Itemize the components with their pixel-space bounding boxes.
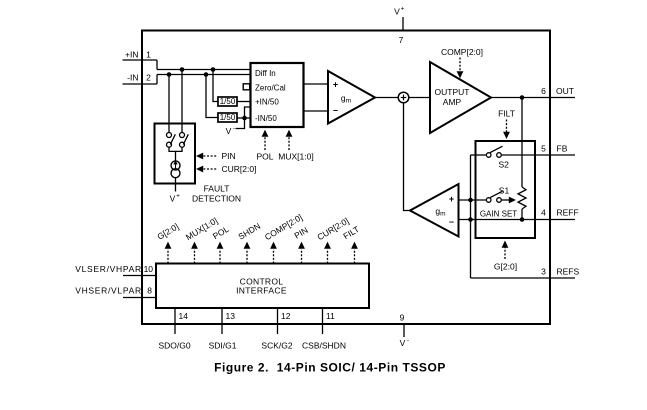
svg-text:2: 2: [146, 73, 151, 83]
wire +IN rail to fault detection: [181, 70, 183, 133]
control signal CUR[2:0] arrow: [196, 166, 217, 173]
wire resistor to REFF line: [521, 209, 523, 220]
svg-text:–: –: [449, 217, 454, 227]
wire REFS line pin 3: [471, 277, 576, 279]
svg-text:COMP[2:0]: COMP[2:0]: [441, 47, 483, 57]
svg-text:+: +: [401, 6, 405, 13]
svg-text:SDO/G0: SDO/G0: [158, 341, 190, 351]
svg-text:V: V: [394, 7, 400, 17]
control signal POL arrow: [262, 130, 269, 150]
control signal FILT arrow: [503, 120, 510, 140]
pin 9 V-: [403, 324, 405, 337]
S2 and pin 5 FB labels: [498, 144, 567, 170]
svg-text:-IN/50: -IN/50: [255, 114, 277, 123]
svg-text:V: V: [226, 126, 232, 136]
wire OUT down to gain resistor: [521, 98, 523, 188]
svg-text:PIN: PIN: [292, 225, 309, 241]
V+ label top: [394, 6, 404, 46]
node junction on OUT line: [520, 95, 525, 100]
FAULT DETECTION label: [192, 184, 241, 204]
svg-text:8: 8: [147, 285, 152, 295]
svg-text:Figure 2. 14-Pin SOIC/ 14-Pin: Figure 2. 14-Pin SOIC/ 14-Pin TSSOP: [214, 361, 446, 375]
node junction V- on -IN/50 line: [242, 116, 247, 121]
wire mux block to gm1 - input: [304, 110, 329, 112]
GAIN SET label: [480, 210, 517, 219]
svg-text:+IN/50: +IN/50: [255, 98, 279, 107]
svg-text:PIN: PIN: [222, 151, 236, 161]
attenuator block 1/50 upper: [218, 97, 237, 106]
S1 label: [499, 185, 510, 195]
switch S2: [471, 146, 503, 157]
wire -IN rail to fault detection: [168, 75, 170, 133]
svg-text:9: 9: [400, 313, 405, 323]
svg-text:12: 12: [281, 311, 291, 321]
pin 13 SDI/G1: [221, 308, 223, 334]
svg-text:+: +: [333, 80, 338, 90]
wire gm2 + input row: [459, 199, 487, 201]
pin 14 SDO/G0: [174, 308, 176, 334]
wire +IN rail to upper 1/50: [213, 70, 218, 102]
wire gm1 output to summing node: [375, 97, 398, 99]
svg-text:FILT: FILT: [498, 109, 515, 119]
svg-text:Zero/Cal: Zero/Cal: [255, 84, 286, 93]
svg-text:AMP: AMP: [443, 97, 462, 107]
svg-text:SCK/G2: SCK/G2: [261, 341, 292, 351]
outer device boundary box: [142, 31, 550, 325]
fault switch left: [167, 133, 176, 148]
svg-text:CUR[2:0]: CUR[2:0]: [222, 164, 257, 174]
resistor R gain: [518, 187, 526, 209]
pin 11 CSB/SHDN: [322, 308, 324, 334]
svg-text:CSB/SHDN: CSB/SHDN: [302, 341, 346, 351]
svg-text:-: -: [233, 125, 235, 132]
svg-text:-: -: [407, 337, 409, 344]
svg-text:4: 4: [541, 208, 546, 218]
svg-text:SDI/G1: SDI/G1: [209, 341, 237, 351]
svg-text:SHDN: SHDN: [236, 221, 262, 242]
attenuator block 1/50 lower: [218, 113, 237, 122]
svg-text:FAULT: FAULT: [204, 184, 230, 194]
svg-text:6: 6: [541, 86, 546, 96]
pin 2 -IN: [123, 75, 158, 85]
pin 12 SCK/G2: [277, 308, 279, 334]
svg-text:FB: FB: [557, 144, 568, 154]
current source I1: [171, 160, 180, 177]
svg-text:V: V: [170, 194, 176, 204]
svg-text:10: 10: [144, 264, 154, 274]
svg-text:+IN: +IN: [125, 50, 138, 60]
pin 7 V+ supply: [402, 17, 404, 31]
svg-text:1/50: 1/50: [220, 97, 236, 106]
svg-text:S1: S1: [499, 185, 510, 195]
control signal COMP[2:0] arrow: [457, 58, 464, 79]
pin 4 REFF labels: [541, 208, 579, 218]
wire REFF line pin 4: [459, 219, 576, 221]
transconductance amp gm1: [328, 71, 375, 124]
wire upper rail from +IN: [157, 69, 251, 71]
svg-text:V: V: [400, 338, 406, 348]
svg-text:14: 14: [179, 311, 189, 321]
transconductance amp gm2 feedback: [410, 184, 459, 237]
svg-text:+: +: [449, 194, 454, 204]
pin 1 labels: [125, 50, 151, 60]
svg-text:GAIN SET: GAIN SET: [480, 210, 517, 219]
control signal G[2:0] arrow: [502, 241, 509, 260]
summing node circle: [398, 92, 409, 103]
pin 10 VLSER/VHPAR: [123, 275, 156, 277]
svg-text:OUTPUT: OUTPUT: [435, 87, 470, 97]
slanted control signal labels: [155, 212, 361, 242]
svg-text:+: +: [176, 193, 180, 200]
svg-text:DETECTION: DETECTION: [192, 194, 241, 204]
fault detection block: [155, 124, 196, 184]
wire current source to V+: [175, 178, 177, 192]
wire switches to current source: [169, 147, 182, 161]
svg-text:G[2:0]: G[2:0]: [155, 221, 180, 241]
output amplifier U2: [430, 62, 491, 133]
svg-text:INTERFACE: INTERFACE: [236, 285, 287, 295]
wire lower 1/50 to mux block: [237, 117, 251, 119]
control signal PIN arrow: [196, 153, 217, 160]
control interface block: [156, 264, 369, 309]
wire S1 arrow to resistor: [501, 197, 516, 204]
svg-text:S2: S2: [498, 160, 509, 170]
svg-text:G[2:0]: G[2:0]: [494, 261, 517, 271]
pin 3 REFS labels: [541, 267, 579, 277]
svg-text:VHSER/VLPAR: VHSER/VLPAR: [75, 285, 142, 295]
switch S1: [486, 191, 502, 202]
svg-text:OUT: OUT: [556, 86, 574, 96]
svg-text:1: 1: [146, 50, 151, 60]
V+ label fault: [170, 193, 180, 204]
wire left feedback rail: [470, 155, 472, 278]
pin 2 labels: [127, 73, 151, 83]
svg-text:MUX[1:0]: MUX[1:0]: [278, 152, 313, 162]
Zero/Cal port square: [243, 84, 250, 90]
gain set block: [476, 141, 536, 238]
svg-text:13: 13: [226, 311, 236, 321]
wire S2 to pin 5 FB: [501, 154, 575, 156]
node junction resistor on REFF: [520, 217, 525, 222]
wire V- bias to -IN/50 net: [236, 107, 251, 129]
svg-text:1/50: 1/50: [220, 113, 236, 122]
svg-text:7: 7: [399, 35, 404, 45]
svg-text:POL: POL: [256, 152, 273, 162]
wire upper 1/50 to mux block: [237, 101, 251, 103]
svg-text:11: 11: [326, 311, 335, 321]
control signal MUX[1:0] arrow: [286, 130, 293, 150]
svg-text:REFS: REFS: [557, 267, 580, 277]
svg-text:gm: gm: [435, 206, 445, 218]
svg-text:REFF: REFF: [557, 208, 579, 218]
svg-text:gm: gm: [341, 93, 351, 105]
wire summing node down to gm2 output: [404, 103, 411, 211]
wire summing node to output amp: [409, 97, 430, 99]
node junction dots on rail: [468, 198, 473, 222]
svg-text:VLSER/VHPAR: VLSER/VHPAR: [75, 264, 142, 274]
wire output amp to pin 6 OUT: [491, 97, 575, 99]
V- label near 1/50: [226, 125, 235, 136]
pin 1 +IN: [123, 60, 158, 70]
pin 8 VHSER/VLPAR: [123, 297, 156, 299]
control bus arrows to top: [165, 242, 358, 264]
svg-text:Diff In: Diff In: [255, 69, 276, 78]
svg-text:3: 3: [541, 267, 546, 277]
fault switch right: [180, 133, 189, 148]
svg-text:-IN: -IN: [127, 73, 138, 83]
figure caption: [214, 361, 446, 375]
wire mux block to gm1 + input: [304, 83, 329, 85]
wire -IN rail to lower 1/50: [206, 75, 218, 118]
pin 6 OUT labels: [541, 86, 574, 96]
wire lower rail from -IN: [157, 74, 251, 76]
svg-text:5: 5: [541, 144, 546, 154]
svg-text:–: –: [333, 105, 338, 115]
input mux block U1 (Diff In / Zero/Cal / +IN/50 / -IN/50): [251, 63, 304, 127]
node junction dots on rails: [167, 67, 216, 77]
